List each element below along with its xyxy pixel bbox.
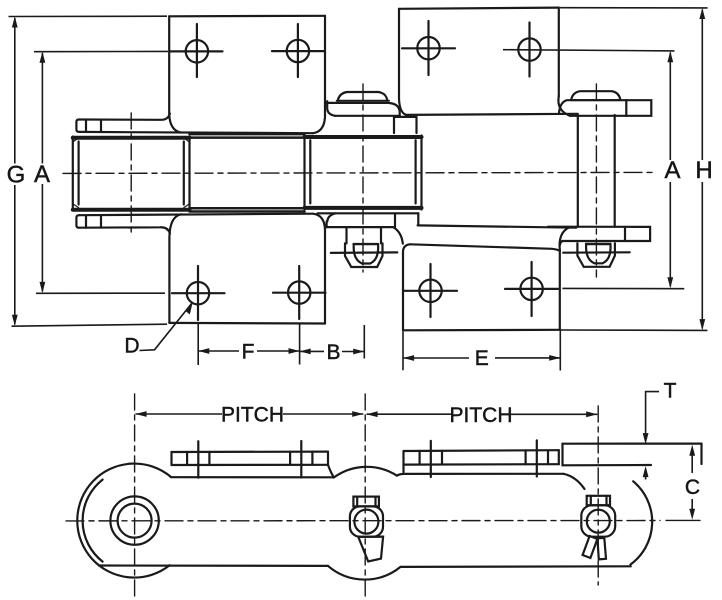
dimension E line	[403, 357, 560, 359]
arrow A right bottom	[667, 277, 673, 288]
attachment bar middle link (side view)	[404, 440, 559, 477]
svg-text:H: H	[695, 157, 712, 184]
plate web top edge (bottom-right)	[410, 244, 560, 251]
arrow H top	[699, 8, 705, 19]
centerline extension for C	[666, 519, 700, 521]
hole bottom-right 2	[505, 262, 558, 316]
arrow B left	[300, 349, 311, 355]
sidebar end block (top, right of middle flange)	[394, 117, 417, 133]
arrow E right	[549, 355, 560, 361]
centerline left pin (side view)	[134, 394, 136, 598]
dimension E extensions	[403, 331, 560, 371]
dimension B extension	[363, 325, 365, 359]
hole bottom-left 1	[172, 266, 225, 320]
arrow A left bottom	[40, 282, 46, 293]
dimension B line	[300, 350, 365, 352]
nut and cotter right pin (side view)	[581, 496, 615, 560]
svg-text:T: T	[664, 380, 677, 403]
arrow T up	[643, 466, 649, 477]
cotter assembly middle pin (top view)	[331, 243, 398, 267]
sidebar rounded end right (side view)	[631, 481, 653, 564]
attachment bar right link (side view)	[563, 444, 702, 466]
dimension H extension + line	[560, 7, 708, 9]
dimension G extension lines	[9, 15, 168, 17]
arrow A right top	[667, 51, 673, 62]
bent flange bottom-right (outward)	[548, 227, 650, 251]
arrow T down	[643, 433, 649, 444]
attachment plate top-left	[169, 16, 325, 133]
bent flange top-right (outward)	[558, 96, 651, 116]
labels	[7, 157, 713, 189]
svg-text:A: A	[34, 161, 50, 188]
svg-text:E: E	[475, 347, 489, 370]
arrow D leader	[185, 302, 193, 315]
arrow PITCH far right	[586, 411, 597, 417]
hole bottom-right 1	[404, 264, 457, 317]
middle pin lower shank	[347, 227, 382, 243]
attachment plate bottom-right	[403, 244, 560, 330]
svg-text:PITCH: PITCH	[450, 404, 513, 427]
arrow H bottom	[699, 319, 705, 330]
svg-text:A: A	[664, 157, 680, 184]
roller barrel middle	[305, 136, 422, 210]
attachment plate bottom-left	[169, 214, 325, 324]
arrow C up	[689, 445, 695, 456]
pin head cap right	[571, 91, 621, 100]
arrow A left top	[40, 52, 46, 63]
centerline horizontal (side view)	[66, 520, 660, 522]
centerline middle pin vertical	[362, 84, 364, 272]
flange strip bottom-left	[76, 215, 169, 233]
arrow PITCH far left	[136, 411, 147, 417]
hole top-right 1	[402, 21, 455, 75]
plate web bottom edge + flange inner edge (top-left)	[80, 132, 314, 133]
arrow PITCH mid left	[367, 411, 378, 417]
arrow F right	[289, 348, 300, 354]
bent flange middle (under cap)	[325, 101, 399, 116]
centerline left pin vertical	[130, 113, 132, 233]
dimension F line	[198, 350, 299, 352]
roller barrel left	[73, 137, 190, 211]
sidebar top edge middle link	[397, 474, 564, 476]
roller middle bottom arc (side view)	[328, 566, 401, 580]
bushing edge lines between barrels (top)	[190, 134, 305, 138]
sidebar top edge left link	[171, 476, 334, 478]
svg-text:F: F	[242, 341, 255, 364]
plate web top edge + flange inner (bottom-left)	[80, 214, 314, 216]
pin head cap middle	[337, 92, 389, 101]
centerline right pin vertical	[595, 84, 597, 277]
hole bottom-left 2	[273, 266, 326, 319]
arrow C down	[689, 509, 695, 520]
svg-text:D: D	[124, 335, 139, 358]
sidebar end wrap curve (right)	[564, 474, 585, 489]
svg-text:B: B	[326, 341, 340, 364]
sidebar bottom edge left link	[99, 564, 328, 567]
sidebar outer edge / web bottom (top, to right pin)	[406, 114, 578, 115]
nut and cotter middle pin (side view)	[350, 497, 383, 562]
roller left (side view)	[77, 464, 171, 578]
bent flange middle-bottom	[318, 213, 419, 243]
cotter assembly right pin (top view)	[563, 243, 630, 267]
dimension D leader	[140, 303, 193, 351]
arrow G bottom	[12, 315, 18, 326]
attachment plate top-right	[399, 8, 559, 115]
dimension A left line	[41, 53, 43, 292]
arrow PITCH mid right	[352, 411, 363, 417]
arrow F left	[198, 348, 209, 354]
flange strip top-left	[76, 114, 169, 132]
arrow E left	[403, 355, 414, 361]
dimension A left extension lines	[34, 50, 168, 52]
sidebar bottom edge middle link	[401, 565, 631, 568]
svg-text:C: C	[685, 476, 700, 499]
dimension F extensions	[198, 324, 299, 365]
sidebar outer edge (bottom, to right pin)	[418, 225, 576, 227]
dimension G line	[14, 18, 16, 325]
centerline right pin (side view)	[597, 406, 599, 585]
centerline middle pin (side view)	[364, 394, 366, 599]
arrow G top	[12, 16, 18, 27]
arrow B right	[353, 349, 364, 355]
svg-text:G: G	[7, 162, 26, 189]
centerline horizontal (top view)	[63, 172, 652, 173]
dimension T bracket	[646, 392, 659, 437]
dimension PITCH right line	[367, 413, 598, 415]
attachment bar left link (side view)	[172, 441, 334, 478]
bushing edge lines between barrels (bottom)	[190, 208, 305, 211]
hole top-left 2	[272, 24, 324, 77]
dimension PITCH left line	[136, 413, 364, 415]
svg-text:PITCH: PITCH	[221, 404, 284, 427]
right pin shank (top view)	[578, 115, 615, 227]
hole top-right 2	[518, 23, 540, 77]
dimension A right extension + line	[503, 50, 675, 51]
hole top-left 1	[170, 24, 223, 77]
roller middle top arc (side view)	[334, 467, 397, 478]
dimension C line	[691, 449, 693, 515]
